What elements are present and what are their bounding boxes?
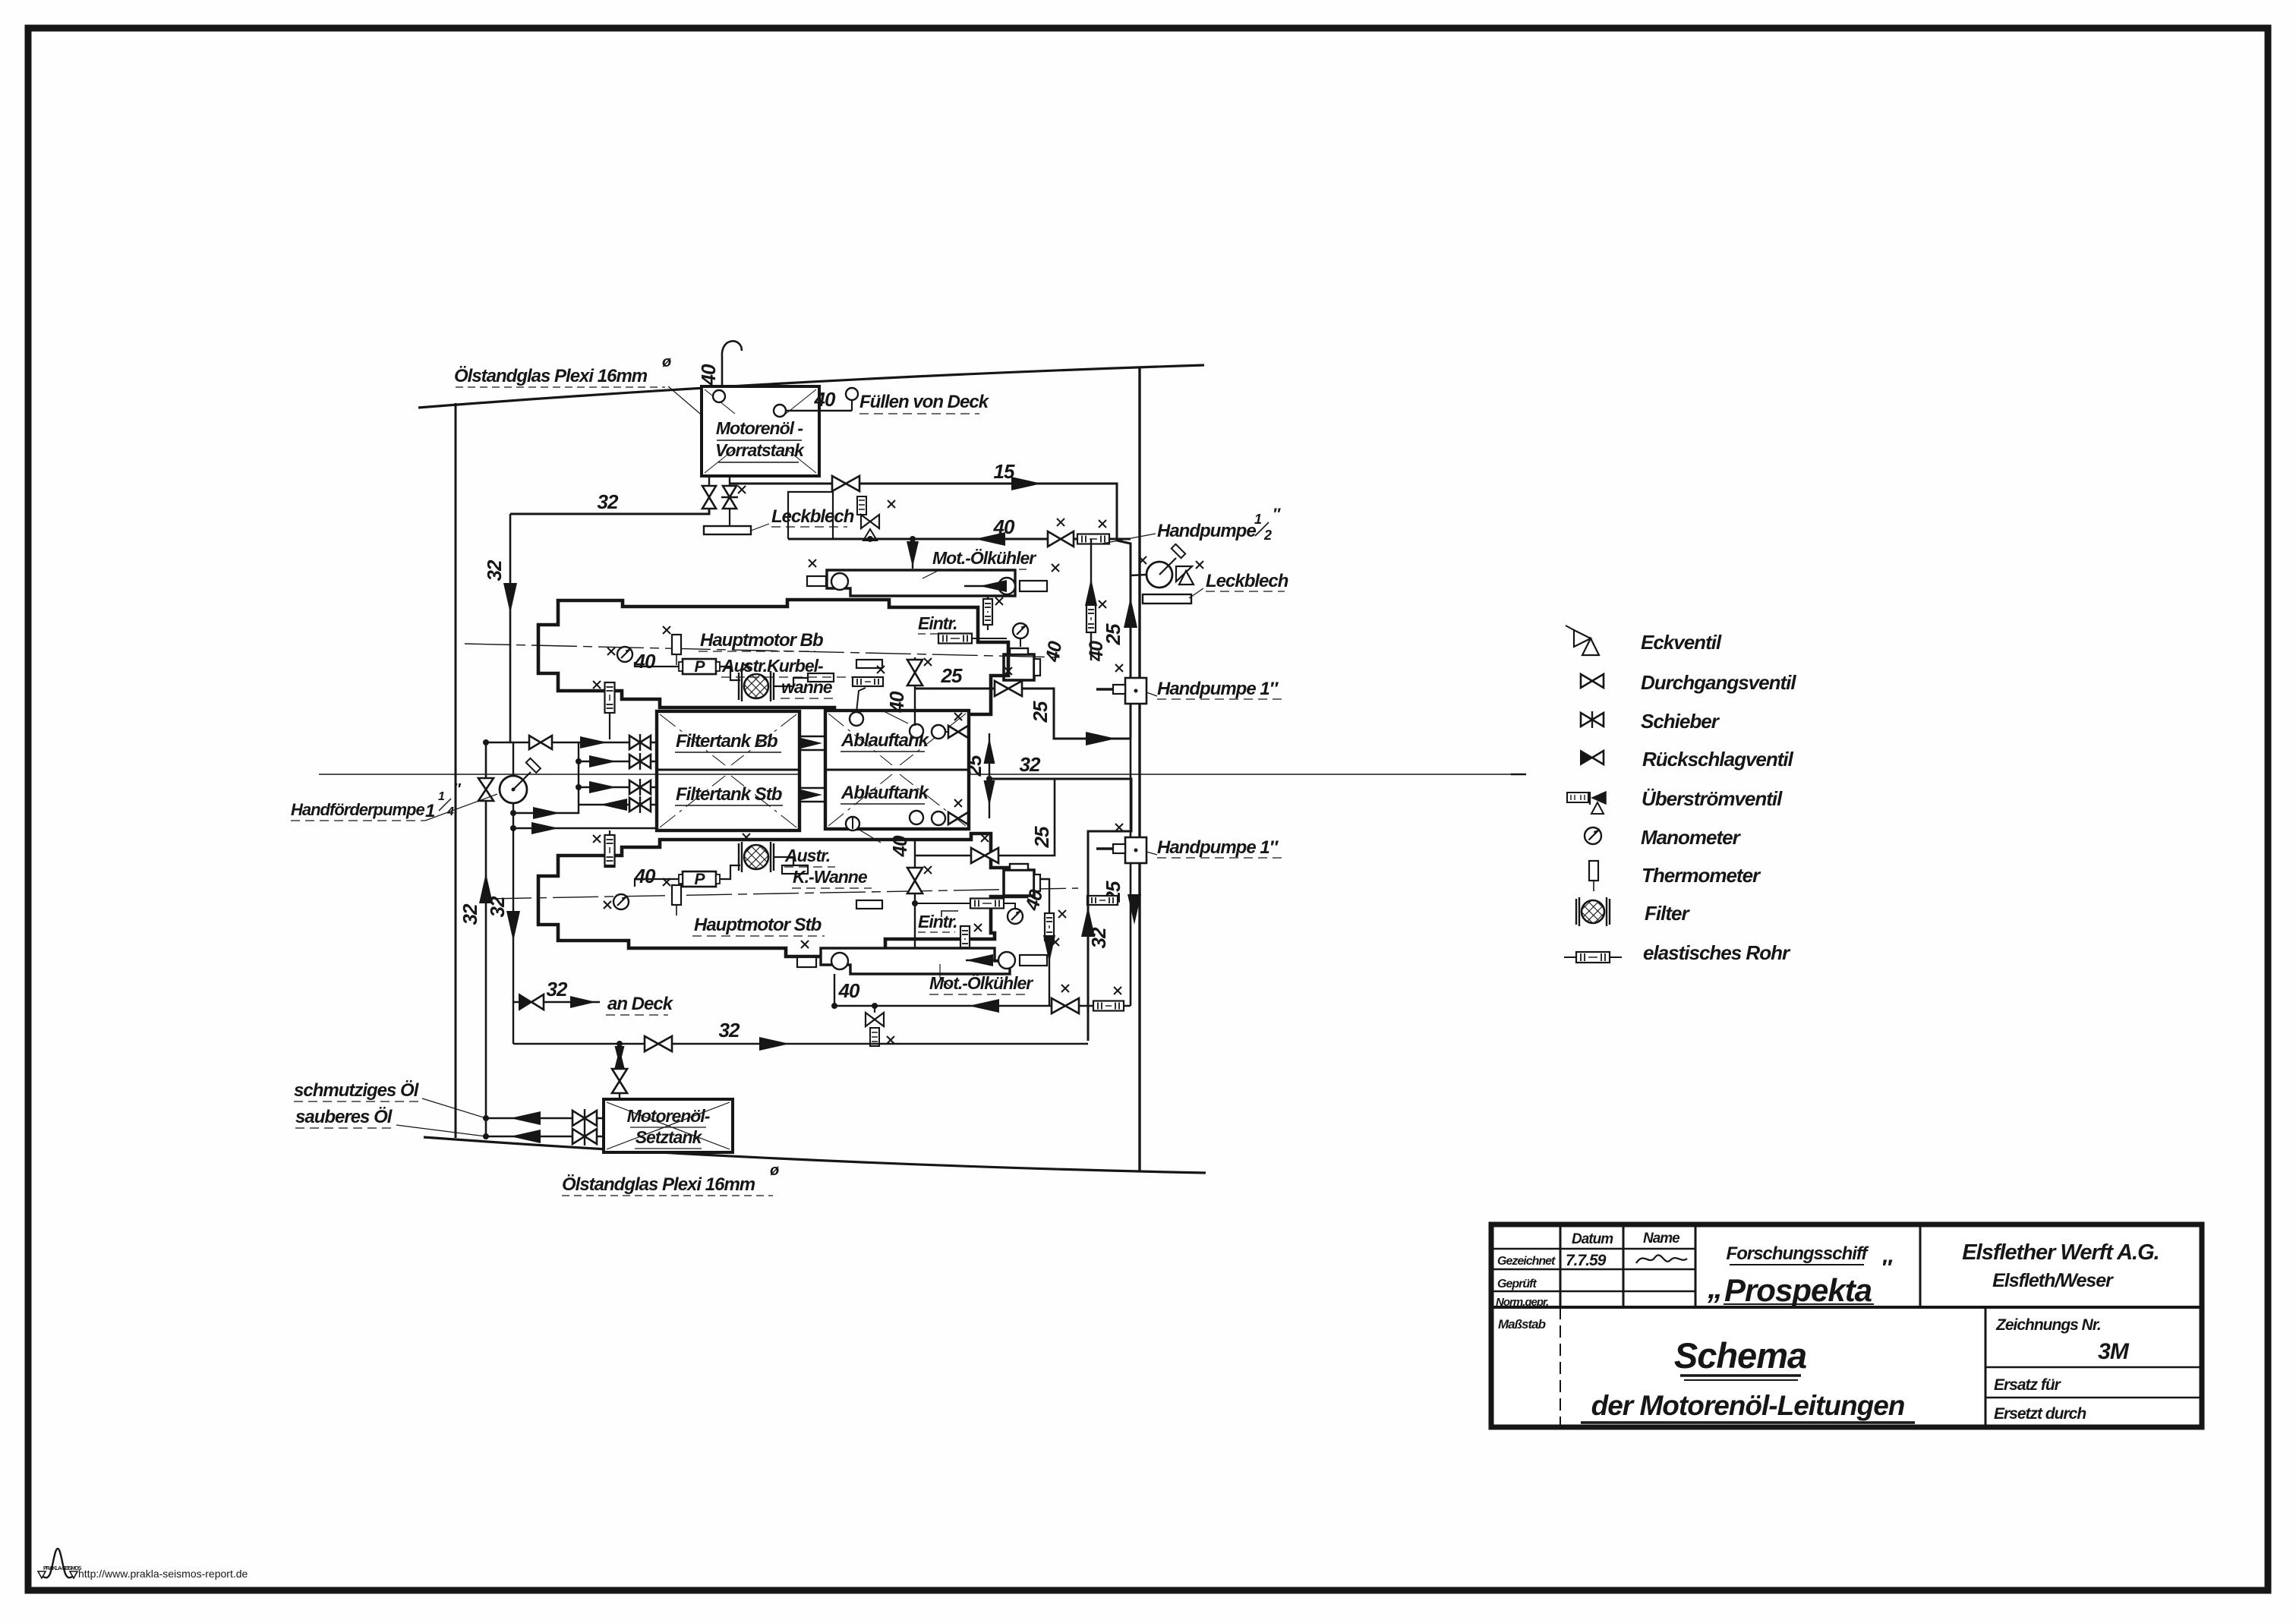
svg-text:Norm.gepr.: Norm.gepr. bbox=[1496, 1296, 1548, 1309]
right boundary wire bbox=[1138, 367, 1140, 1171]
oil cooler Stb bbox=[821, 948, 1010, 974]
svg-text:K.-Wanne: K.-Wanne bbox=[793, 867, 868, 887]
tank Motorenoel-Setztank bbox=[604, 1099, 733, 1152]
svg-text:32: 32 bbox=[483, 559, 506, 581]
thermo below bbox=[960, 926, 970, 952]
manifold rows into Filtertank bbox=[486, 742, 579, 743]
svg-text:1: 1 bbox=[425, 801, 435, 821]
svg-text:32: 32 bbox=[719, 1019, 740, 1042]
wire 32 from tank to left drop bbox=[510, 508, 709, 514]
svg-text:Maßstab: Maßstab bbox=[1498, 1317, 1546, 1331]
legend Thermometer bbox=[1589, 861, 1598, 881]
wire an Deck bbox=[513, 1001, 600, 1004]
svg-text:Hauptmotor Bb: Hauptmotor Bb bbox=[700, 630, 823, 651]
svg-text:Mot.-Ölkühler: Mot.-Ölkühler bbox=[932, 548, 1036, 568]
svg-text:Füllen von Deck: Füllen von Deck bbox=[859, 392, 990, 412]
elastic risers left engine Bb bbox=[605, 682, 615, 713]
svg-text:der Motorenöl-Leitungen: der Motorenöl-Leitungen bbox=[1591, 1390, 1905, 1421]
svg-text:Gezeichnet: Gezeichnet bbox=[1497, 1255, 1556, 1268]
svg-text:Leckblech: Leckblech bbox=[771, 506, 854, 527]
svg-text:2: 2 bbox=[1263, 528, 1272, 543]
title block grid bbox=[1491, 1306, 2202, 1309]
legend Manometer bbox=[1585, 827, 1601, 844]
engine Stb instruments bbox=[613, 894, 629, 909]
Leckblech plate top bbox=[729, 508, 730, 525]
svg-text:40: 40 bbox=[888, 835, 911, 857]
riser wire right bbox=[1130, 739, 1132, 1006]
wire 25 upper bbox=[915, 689, 1131, 739]
svg-text:Filter: Filter bbox=[1645, 902, 1690, 925]
svg-text:http://www.prakla-seismos-repo: http://www.prakla-seismos-report.de bbox=[78, 1568, 248, 1580]
elastic at filtertank bottom bbox=[605, 835, 615, 865]
svg-text:Datum: Datum bbox=[1572, 1231, 1613, 1247]
svg-text:7.7.59: 7.7.59 bbox=[1566, 1252, 1607, 1269]
svg-text:32: 32 bbox=[598, 490, 619, 513]
svg-text:schmutziges Öl: schmutziges Öl bbox=[294, 1080, 420, 1101]
svg-text:Ersetzt durch: Ersetzt durch bbox=[1994, 1405, 2086, 1423]
svg-text:Handpumpe: Handpumpe bbox=[1157, 521, 1256, 541]
engine Stb centerline bbox=[486, 888, 1078, 899]
svg-text:Ersatz für: Ersatz für bbox=[1994, 1376, 2062, 1394]
wire 40 return line bbox=[788, 538, 1131, 540]
overflow valve top bbox=[857, 496, 866, 515]
svg-text:32: 32 bbox=[1020, 753, 1041, 776]
svg-text:Filtertank Bb: Filtertank Bb bbox=[676, 731, 777, 752]
cooler outlet elastic bbox=[987, 596, 989, 630]
svg-text:Zeichnungs Nr.: Zeichnungs Nr. bbox=[1995, 1316, 2101, 1334]
wire fill line bbox=[786, 410, 852, 411]
svg-text:Leckblech: Leckblech bbox=[1206, 571, 1288, 591]
wire 32 to right riser bbox=[989, 779, 1131, 1041]
svg-text:Filtertank Stb: Filtertank Stb bbox=[676, 784, 782, 805]
filter engine Stb bbox=[738, 843, 740, 871]
svg-text:Hauptmotor Stb: Hauptmotor Stb bbox=[694, 915, 822, 935]
engine Bb centerline bbox=[465, 644, 1063, 657]
svg-text:elastisches Rohr: elastisches Rohr bbox=[1643, 941, 1791, 964]
engine Bb instruments bbox=[617, 647, 632, 662]
main centerline bbox=[319, 774, 799, 775]
svg-text:25: 25 bbox=[941, 664, 963, 687]
engine inlet valve block top bbox=[1004, 654, 1034, 680]
svg-text:25: 25 bbox=[1029, 701, 1052, 723]
legend Ueberstroemventil bbox=[1567, 793, 1588, 802]
legend Rueckschlagventil bbox=[1581, 751, 1592, 764]
svg-text:wanne: wanne bbox=[781, 677, 833, 697]
drop to Setztank bbox=[617, 1041, 623, 1047]
legend Eckventil bbox=[1574, 630, 1591, 647]
svg-text:Schieber: Schieber bbox=[1641, 710, 1720, 733]
svg-text:Rückschlagventil: Rückschlagventil bbox=[1642, 748, 1794, 771]
svg-text:40: 40 bbox=[634, 865, 656, 887]
ship hull top line bbox=[418, 365, 1204, 408]
legend elastisches Rohr bbox=[1564, 956, 1622, 958]
svg-text:Austr.Kurbel-: Austr.Kurbel- bbox=[721, 656, 823, 676]
svg-text:ø: ø bbox=[770, 1162, 779, 1179]
valve under tank left bbox=[708, 476, 710, 487]
svg-text:ø: ø bbox=[662, 354, 671, 370]
svg-text:Überströmventil: Überströmventil bbox=[1642, 787, 1783, 810]
svg-text:Mot.-Ölkühler: Mot.-Ölkühler bbox=[929, 973, 1033, 993]
vertical 25 connector at tanks bbox=[989, 733, 990, 818]
svg-text:Manometer: Manometer bbox=[1641, 826, 1742, 849]
svg-text:Ablauftank: Ablauftank bbox=[840, 783, 930, 803]
svg-text:Elsfleth/Weser: Elsfleth/Weser bbox=[1992, 1270, 2114, 1291]
hand pump 1 inch lower bbox=[1125, 837, 1146, 863]
drop into oil cooler bbox=[912, 539, 913, 569]
left boundary wire bbox=[455, 403, 457, 1138]
svg-text:Ölstandglas Plexi 16mm: Ölstandglas Plexi 16mm bbox=[454, 366, 648, 386]
valve under tank right bbox=[729, 476, 730, 487]
pump outlet bbox=[513, 742, 579, 813]
svg-text:1: 1 bbox=[1254, 512, 1262, 527]
tank Ablauftank box bbox=[825, 711, 969, 829]
svg-text:Handpumpe 1″: Handpumpe 1″ bbox=[1157, 679, 1279, 699]
hand pump 1 inch upper bbox=[1125, 678, 1146, 704]
corner valve beside pump bbox=[1176, 566, 1192, 581]
Setztank inlet wires bbox=[486, 1117, 604, 1120]
fill connection circle bbox=[774, 405, 786, 417]
riser with elastic top right bbox=[1090, 539, 1092, 660]
Leckblech pump plate bbox=[1143, 594, 1191, 604]
left drop wire bbox=[509, 514, 512, 742]
svg-text:Geprüft: Geprüft bbox=[1497, 1278, 1537, 1291]
svg-text:sauberes Öl: sauberes Öl bbox=[295, 1107, 393, 1127]
svg-text:1: 1 bbox=[438, 790, 445, 803]
svg-text:Austr.: Austr. bbox=[784, 846, 830, 865]
svg-text:3M: 3M bbox=[2098, 1339, 2130, 1364]
valve drop Bb bbox=[914, 657, 916, 726]
tank Motorenoel-Vorratstank bbox=[702, 386, 819, 476]
filter engine Bb bbox=[738, 673, 740, 700]
Fuellen von Deck fitting bbox=[846, 388, 858, 400]
legend Filter bbox=[1575, 899, 1577, 925]
svg-text:25: 25 bbox=[1102, 623, 1124, 645]
svg-text:Name: Name bbox=[1643, 1231, 1680, 1246]
engine Hauptmotor Bb outline bbox=[538, 600, 1008, 714]
vent pipe with hook bbox=[721, 357, 724, 386]
svg-text:Eintr.: Eintr. bbox=[918, 912, 957, 931]
hand transfer pump bbox=[500, 776, 527, 803]
wire 15 line to right bbox=[730, 484, 1131, 739]
title block frame bbox=[1491, 1224, 2202, 1427]
engine inlet valve block bottom bbox=[1004, 870, 1034, 896]
svg-text:40: 40 bbox=[838, 979, 860, 1002]
svg-text:„: „ bbox=[1707, 1272, 1722, 1305]
svg-text:Schema: Schema bbox=[1674, 1335, 1806, 1376]
svg-text:Setztank: Setztank bbox=[635, 1127, 703, 1147]
overflow valve bottom bbox=[874, 1006, 875, 1013]
left feed verticals bbox=[485, 742, 487, 1136]
oil cooler Bb bbox=[827, 570, 1015, 596]
ship hull bottom line bbox=[424, 1137, 1206, 1173]
wire 40 bottom bbox=[834, 974, 835, 1006]
svg-text:32: 32 bbox=[547, 978, 568, 1001]
hand pump half inch bbox=[1146, 562, 1172, 588]
svg-text:Handpumpe 1″: Handpumpe 1″ bbox=[1157, 837, 1279, 858]
svg-text:Handförderpumpe: Handförderpumpe bbox=[291, 800, 424, 819]
svg-text:Thermometer: Thermometer bbox=[1642, 864, 1761, 887]
svg-text:Eckventil: Eckventil bbox=[1641, 631, 1722, 654]
tank Filtertank box bbox=[657, 711, 799, 830]
valve drop Stb bbox=[914, 840, 916, 972]
svg-text:25: 25 bbox=[963, 755, 986, 777]
engine Hauptmotor Stb outline bbox=[538, 834, 1027, 956]
svg-text:25: 25 bbox=[1030, 826, 1053, 848]
legend Schieber bbox=[1581, 713, 1604, 726]
svg-text:P: P bbox=[694, 871, 705, 888]
svg-text:Motorenöl -: Motorenöl - bbox=[716, 418, 803, 438]
wire 32 bottom bbox=[513, 1043, 1088, 1045]
duct channels between tanks bbox=[799, 736, 825, 738]
svg-text:an Deck: an Deck bbox=[607, 994, 674, 1014]
svg-text:Durchgangsventil: Durchgangsventil bbox=[1641, 671, 1796, 694]
svg-text:Elsflether Werft A.G.: Elsflether Werft A.G. bbox=[1962, 1240, 2159, 1265]
svg-text:40: 40 bbox=[885, 691, 908, 713]
tank top fittings bbox=[850, 712, 863, 726]
svg-text:Motorenöl-: Motorenöl- bbox=[627, 1106, 710, 1126]
svg-text:P: P bbox=[694, 658, 705, 676]
leader wire to tank bbox=[668, 386, 710, 422]
svg-text:40: 40 bbox=[697, 364, 720, 386]
vent cap circle bbox=[713, 390, 725, 402]
lower feed row bbox=[513, 827, 657, 829]
elastic riser left engine Stb bbox=[605, 837, 615, 867]
svg-text:32: 32 bbox=[486, 896, 509, 917]
riser with elastic bottom right bbox=[1040, 879, 1049, 1006]
svg-text:Vorratstank: Vorratstank bbox=[715, 440, 805, 460]
prakla-seismos logo bbox=[42, 1549, 74, 1577]
svg-text:Prospekta: Prospekta bbox=[1724, 1272, 1872, 1308]
svg-text:32: 32 bbox=[459, 903, 481, 925]
svg-text:Ölstandglas Plexi 16mm: Ölstandglas Plexi 16mm bbox=[562, 1174, 755, 1195]
svg-text:Eintr.: Eintr. bbox=[918, 613, 957, 633]
svg-text:40: 40 bbox=[634, 650, 656, 673]
svg-text:PRAKLA-SEISMOS: PRAKLA-SEISMOS bbox=[43, 1566, 82, 1571]
svg-text:40: 40 bbox=[814, 388, 836, 411]
legend Durchgangsventil bbox=[1581, 674, 1604, 688]
svg-text:Forschungsschiff: Forschungsschiff bbox=[1727, 1243, 1869, 1264]
svg-text:32: 32 bbox=[1087, 927, 1110, 948]
wire 25 lower bbox=[916, 779, 1055, 856]
